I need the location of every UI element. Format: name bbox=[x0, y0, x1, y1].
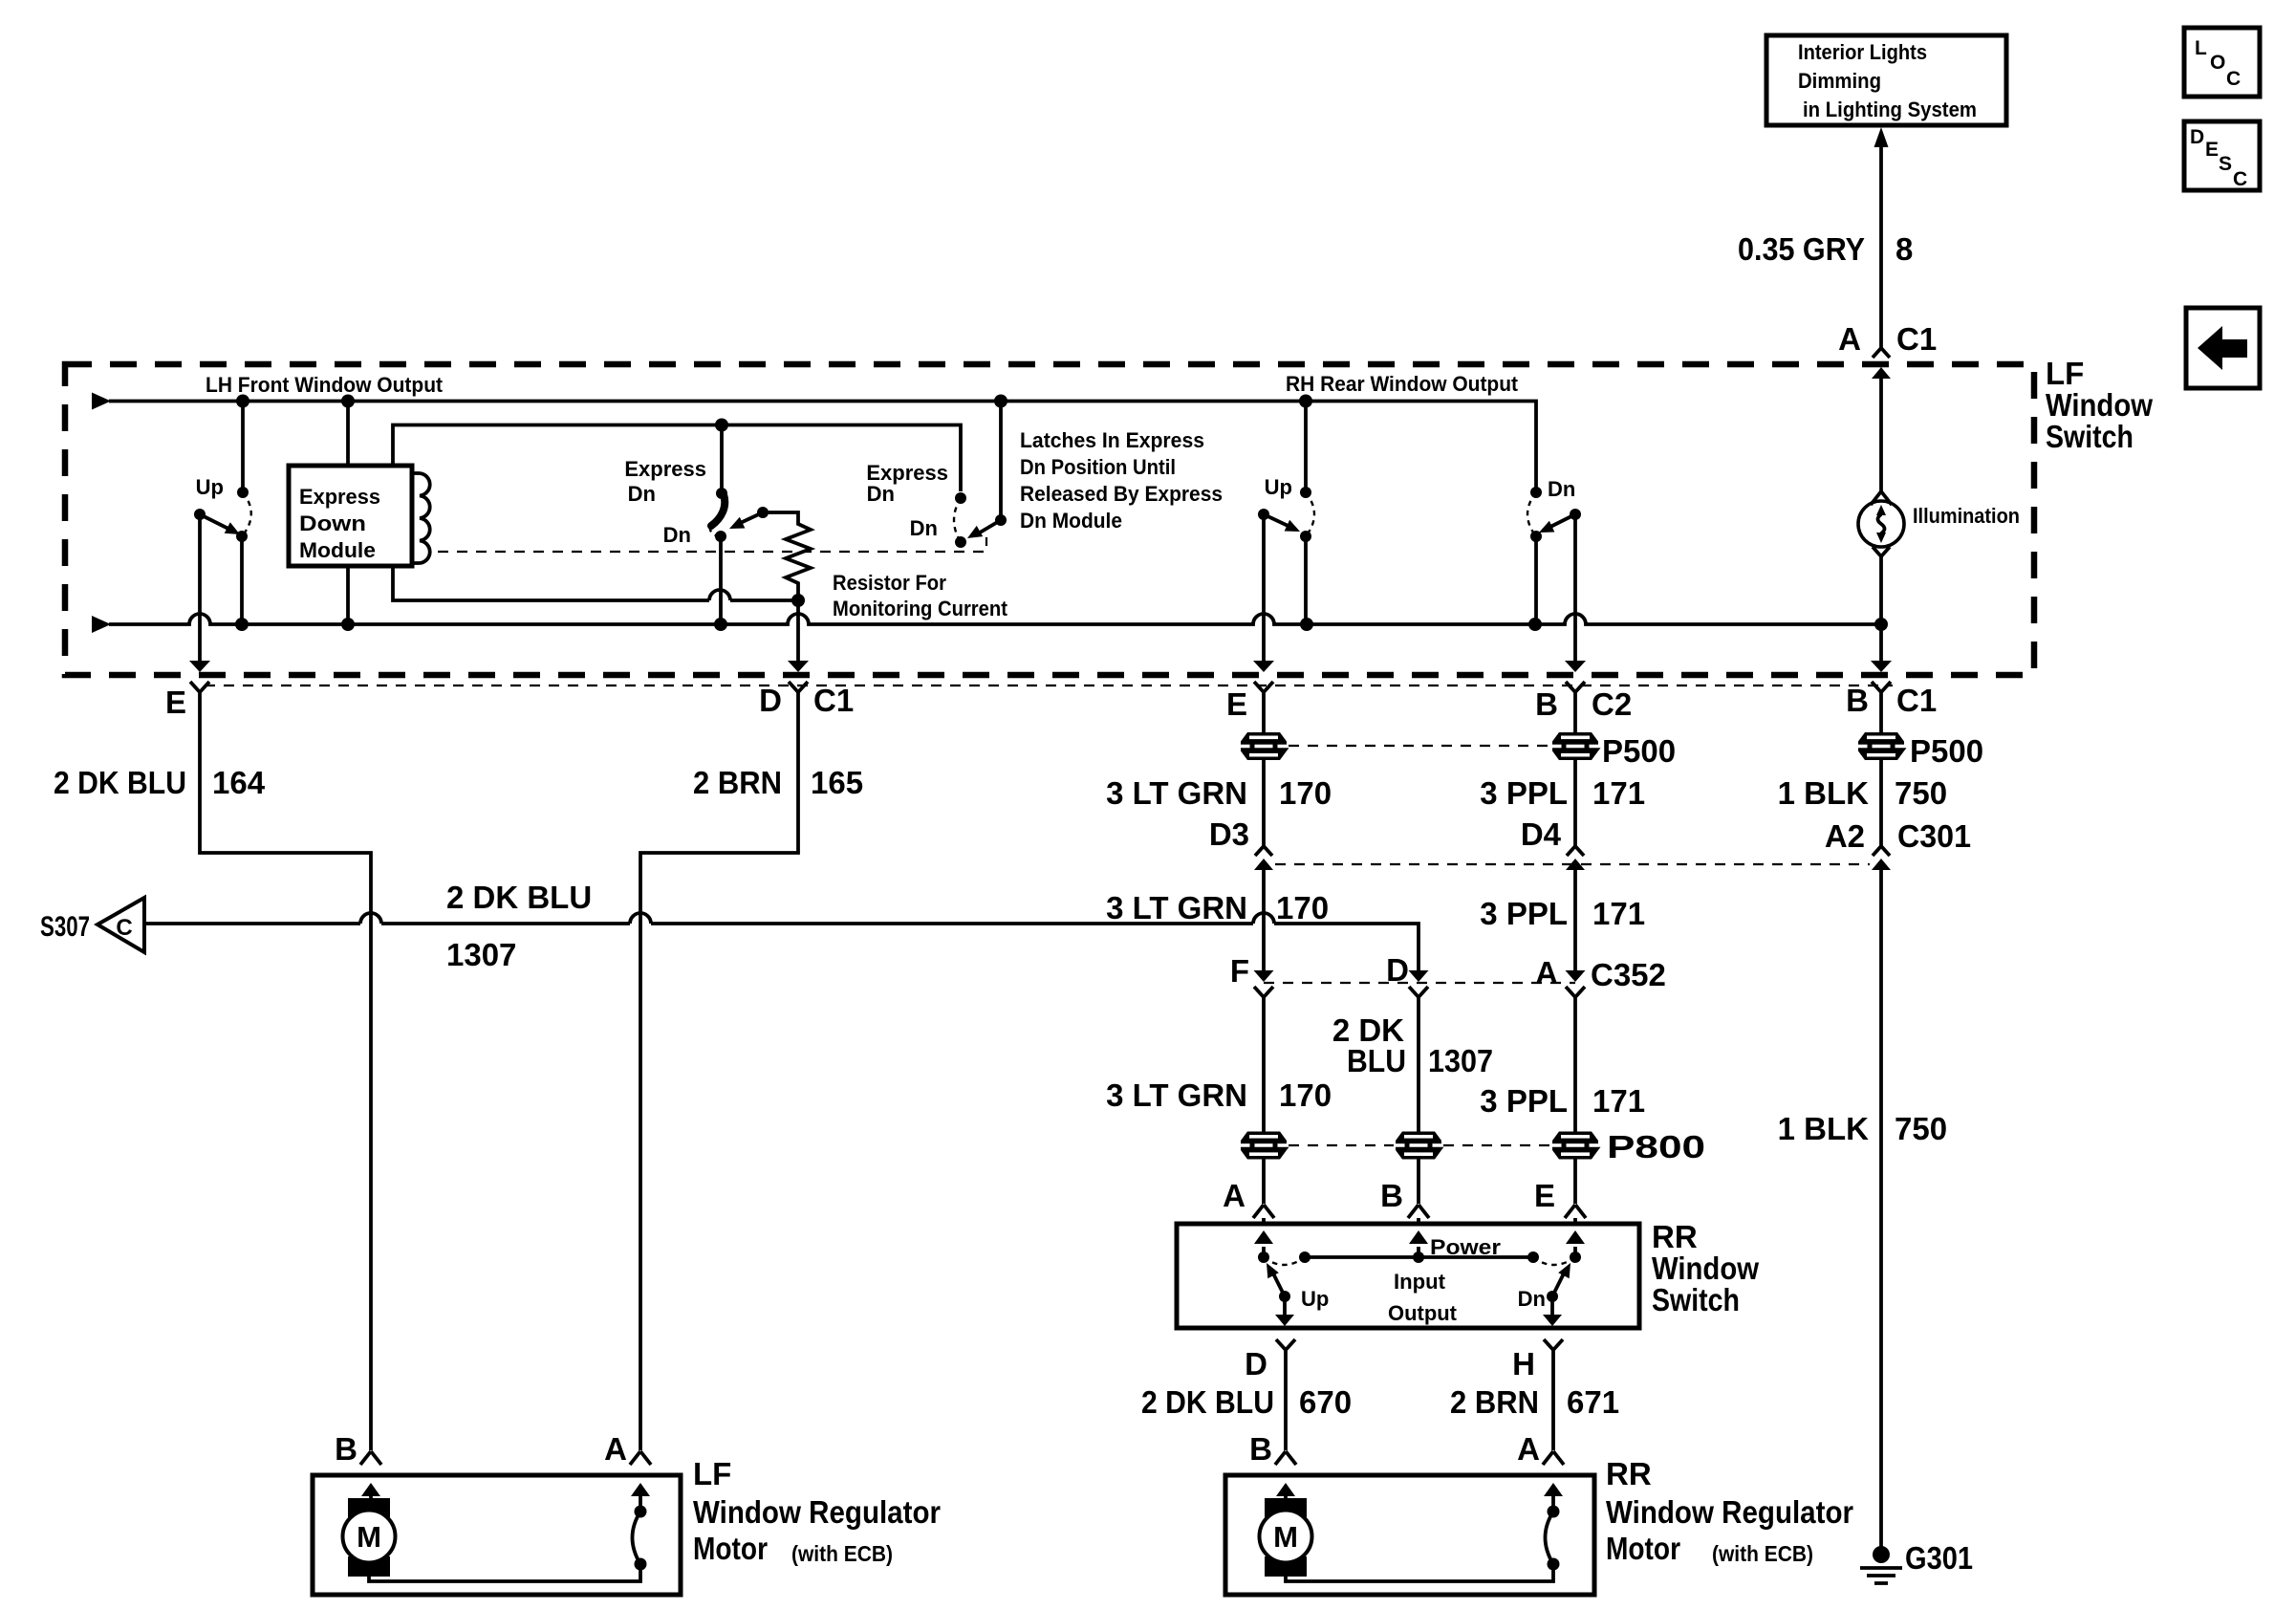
terminal A arrow (RR switch) bbox=[1254, 1230, 1273, 1244]
svg-text:Down: Down bbox=[299, 511, 366, 535]
svg-text:2 DK BLU: 2 DK BLU bbox=[54, 765, 186, 800]
svg-text:171: 171 bbox=[1592, 896, 1645, 931]
DESC button bbox=[2184, 121, 2260, 190]
contact RH Dn moving bbox=[1530, 531, 1542, 542]
coil on module right side bbox=[412, 473, 430, 563]
svg-text:Switch: Switch bbox=[2046, 419, 2134, 454]
wire 2 DK BLU 1307 (S307 to C352 D) bbox=[144, 924, 1419, 970]
svg-text:Dn: Dn bbox=[1518, 1287, 1546, 1311]
svg-text:Up: Up bbox=[196, 475, 224, 499]
switch arm LH Up bbox=[200, 514, 232, 531]
svg-text:G301: G301 bbox=[1905, 1540, 1973, 1576]
wire top bus to latch pivot bbox=[999, 402, 1003, 521]
svg-text:670: 670 bbox=[1299, 1384, 1352, 1420]
svg-text:3 LT GRN: 3 LT GRN bbox=[1106, 890, 1247, 925]
svg-text:O: O bbox=[2210, 52, 2225, 74]
svg-text:3 LT GRN: 3 LT GRN bbox=[1106, 1077, 1247, 1113]
svg-text:Express: Express bbox=[624, 457, 706, 481]
svg-text:A: A bbox=[1838, 321, 1861, 357]
svg-text:Dn: Dn bbox=[663, 523, 691, 547]
svg-text:2 BRN: 2 BRN bbox=[1450, 1384, 1539, 1420]
pivot RR Up bbox=[1258, 1251, 1269, 1263]
grommet P500 (left) bbox=[1262, 760, 1266, 846]
wire LF motor return bbox=[369, 1564, 640, 1581]
svg-text:8: 8 bbox=[1895, 231, 1913, 267]
svg-text:D: D bbox=[1386, 952, 1409, 988]
svg-text:Express: Express bbox=[299, 485, 380, 509]
svg-text:LH Front Window Output: LH Front Window Output bbox=[206, 373, 444, 397]
switch Express Dn (LH, shown latched) bbox=[720, 425, 724, 494]
svg-text:3 PPL: 3 PPL bbox=[1480, 896, 1568, 931]
svg-text:(with ECB): (with ECB) bbox=[1712, 1541, 1813, 1566]
svg-text:B: B bbox=[1846, 683, 1869, 718]
contact Express Dn moving bbox=[715, 531, 726, 542]
svg-text:1 BLK: 1 BLK bbox=[1778, 775, 1870, 811]
connector P800 link right (dashed) bbox=[1443, 1144, 1550, 1146]
svg-text:Up: Up bbox=[1265, 475, 1292, 499]
svg-text:Dimming: Dimming bbox=[1798, 69, 1881, 93]
wire bottom bus bbox=[92, 616, 111, 633]
svg-text:Window Regulator: Window Regulator bbox=[693, 1494, 941, 1530]
node bottom bus / module return bbox=[341, 618, 355, 631]
dashed throw arc RR Dn bbox=[1533, 1257, 1575, 1265]
motor M2 (RR) bbox=[1265, 1498, 1307, 1517]
wire bus to connector B C1 bbox=[1879, 624, 1883, 661]
grommet P500 (right) bbox=[1879, 760, 1883, 846]
wire LH Up pivot to connector E bbox=[198, 514, 202, 661]
svg-text:Motor: Motor bbox=[1606, 1531, 1680, 1566]
pivot LH Up switch bbox=[194, 509, 206, 520]
svg-text:RH Rear Window Output: RH Rear Window Output bbox=[1286, 372, 1519, 396]
node loop bottom / resistor bbox=[791, 594, 805, 607]
wire 3 PPL 171 (B to RR switch E) bbox=[1573, 692, 1577, 732]
svg-text:C: C bbox=[116, 915, 132, 941]
terminal B arrow (LF motor) bbox=[361, 1483, 380, 1496]
svg-text:RR: RR bbox=[1606, 1456, 1652, 1491]
svg-text:165: 165 bbox=[811, 765, 863, 800]
connector P800 link left (dashed) bbox=[1289, 1144, 1394, 1146]
switch RH rear Up bbox=[1304, 402, 1308, 493]
ECB contact (RR motor) bbox=[1548, 1506, 1560, 1518]
wire P800 to RR switch A bbox=[1262, 1159, 1266, 1204]
svg-text:E: E bbox=[1226, 686, 1247, 722]
svg-text:171: 171 bbox=[1592, 775, 1645, 811]
ECB contact (LF motor) bbox=[635, 1506, 647, 1518]
svg-text:C: C bbox=[2226, 68, 2241, 90]
wire RH Dn pivot to connector B C2 bbox=[1573, 514, 1577, 661]
svg-text:0.35 GRY: 0.35 GRY bbox=[1738, 231, 1865, 267]
svg-text:C352: C352 bbox=[1591, 957, 1666, 992]
wire 3 PPL 171 (C352 to P800) bbox=[1573, 997, 1577, 1132]
node power input RR switch bbox=[1413, 1251, 1424, 1263]
connector pass-through P500 link (dashed) bbox=[1289, 745, 1550, 747]
svg-text:1307: 1307 bbox=[1428, 1043, 1493, 1078]
svg-text:B: B bbox=[1535, 686, 1558, 722]
splice S307 bbox=[97, 898, 144, 952]
thick latched arm (Express Dn held) bbox=[711, 494, 725, 526]
node top bus / module feed bbox=[341, 395, 355, 408]
switch arm Express Dn bbox=[734, 512, 763, 526]
LF Window Regulator Motor box bbox=[313, 1475, 681, 1595]
svg-text:E: E bbox=[2205, 139, 2219, 161]
wire RH Up pivot to connector E bbox=[1262, 514, 1266, 661]
ground G301 bbox=[1873, 1546, 1890, 1563]
back arrow button bbox=[2186, 308, 2260, 388]
contact RH Up moving bbox=[1300, 531, 1311, 542]
LOC button bbox=[2184, 28, 2260, 97]
wire 2 BRN 671 (H to RR motor A) bbox=[1551, 1350, 1555, 1450]
mechanical link module to latch (dashed) bbox=[438, 537, 986, 552]
svg-text:C2: C2 bbox=[1592, 686, 1632, 722]
wire 3 LT GRN 170 (C301 to C352 F) bbox=[1262, 870, 1266, 970]
svg-text:750: 750 bbox=[1895, 775, 1947, 811]
RR Window Regulator Motor box bbox=[1225, 1475, 1594, 1595]
dashed throw arc LH Up bbox=[242, 492, 251, 536]
contact Express Dn fixed bbox=[716, 488, 727, 499]
svg-text:3 PPL: 3 PPL bbox=[1480, 1083, 1568, 1119]
svg-text:A: A bbox=[604, 1431, 627, 1467]
dashed throw arc latch bbox=[954, 498, 961, 542]
wire module to bottom bus bbox=[346, 566, 350, 624]
terminal E arrow (RR switch) bbox=[1566, 1230, 1585, 1244]
svg-text:1307: 1307 bbox=[446, 937, 516, 972]
svg-text:P800: P800 bbox=[1607, 1129, 1705, 1164]
wire top bus to module bbox=[346, 402, 350, 467]
svg-text:2 DK BLU: 2 DK BLU bbox=[1141, 1384, 1274, 1420]
svg-text:Illumination: Illumination bbox=[1913, 504, 2020, 528]
svg-text:2 BRN: 2 BRN bbox=[693, 765, 782, 800]
wire RR Up to connector D bbox=[1283, 1296, 1287, 1316]
svg-text:Window Regulator: Window Regulator bbox=[1606, 1494, 1853, 1530]
dashed throw arc RH Dn bbox=[1527, 492, 1536, 536]
svg-text:Dn Position Until: Dn Position Until bbox=[1020, 455, 1176, 479]
pivot latch switch bbox=[995, 514, 1007, 526]
wire 2 DK BLU 164 (E to LF motor B) bbox=[200, 692, 371, 1450]
svg-text:M: M bbox=[1273, 1520, 1298, 1554]
svg-text:Resistor For: Resistor For bbox=[833, 571, 946, 595]
svg-text:S: S bbox=[2219, 153, 2232, 175]
terminal A arrow (LF motor) bbox=[631, 1483, 650, 1496]
pivot RH Up switch bbox=[1258, 509, 1269, 520]
node top bus / latch switch pivot feed bbox=[994, 395, 1007, 408]
svg-text:1 BLK: 1 BLK bbox=[1778, 1111, 1870, 1146]
svg-text:A: A bbox=[1535, 955, 1558, 990]
svg-text:3 PPL: 3 PPL bbox=[1480, 775, 1568, 811]
LF Window Switch assembly dashed box bbox=[65, 364, 2034, 675]
svg-text:C1: C1 bbox=[1896, 683, 1937, 718]
wire A C1 into LF window switch bbox=[1879, 379, 1883, 387]
svg-text:E: E bbox=[1534, 1178, 1555, 1213]
node bottom bus / Express Dn switch return bbox=[714, 618, 727, 631]
svg-text:Power: Power bbox=[1430, 1235, 1501, 1259]
svg-text:L: L bbox=[2195, 37, 2207, 59]
wire RR motor return bbox=[1286, 1564, 1553, 1581]
dashed throw arc RR Up bbox=[1264, 1257, 1305, 1265]
svg-text:B: B bbox=[335, 1431, 357, 1467]
svg-text:Latches In Express: Latches In Express bbox=[1020, 428, 1204, 452]
node top bus / RH Up contact feed bbox=[1299, 395, 1312, 408]
svg-text:in Lighting System: in Lighting System bbox=[1803, 98, 1977, 121]
node loop top / Express Dn contact feed bbox=[715, 419, 728, 432]
svg-text:D3: D3 bbox=[1209, 816, 1249, 852]
wire 1 BLK 750 (B to G301) bbox=[1879, 692, 1883, 732]
svg-text:Released By Express: Released By Express bbox=[1020, 482, 1223, 506]
node bottom bus / LH Up moving contact bbox=[235, 618, 249, 631]
svg-text:B: B bbox=[1249, 1431, 1272, 1467]
node bottom bus / RH Dn moving contact bbox=[1528, 618, 1542, 631]
svg-text:C301: C301 bbox=[1897, 818, 1971, 854]
svg-text:A: A bbox=[1517, 1431, 1540, 1467]
svg-text:D4: D4 bbox=[1521, 816, 1562, 852]
switch LH window Up (fixed contact) bbox=[241, 402, 245, 493]
svg-text:671: 671 bbox=[1567, 1384, 1619, 1420]
wire lamp to bottom bus bbox=[1879, 556, 1883, 624]
wire LH Front Window Output top bus bbox=[92, 393, 111, 410]
svg-text:B: B bbox=[1380, 1178, 1403, 1213]
svg-text:Dn Module: Dn Module bbox=[1020, 509, 1122, 533]
svg-text:A: A bbox=[1223, 1178, 1245, 1213]
wire 3 LT GRN 170 (E to RR switch A) bbox=[1262, 692, 1266, 732]
pivot RH Dn switch bbox=[1570, 509, 1581, 520]
dashed throw arc Express Dn bbox=[710, 527, 718, 536]
switch arm RR Dn bbox=[1552, 1272, 1565, 1296]
svg-text:D: D bbox=[1245, 1346, 1267, 1382]
svg-text:3 LT GRN: 3 LT GRN bbox=[1106, 775, 1247, 811]
svg-text:P500: P500 bbox=[1910, 733, 1983, 769]
connector C301 (dashed row) bbox=[1275, 863, 1870, 865]
node bottom bus / RH Up moving contact bbox=[1300, 618, 1313, 631]
wire to illumination lamp bbox=[1879, 387, 1883, 491]
svg-text:D: D bbox=[2190, 126, 2204, 148]
svg-text:Module: Module bbox=[299, 538, 376, 562]
svg-text:C1: C1 bbox=[1896, 321, 1937, 357]
svg-text:Input: Input bbox=[1394, 1270, 1446, 1294]
svg-text:P500: P500 bbox=[1602, 733, 1676, 769]
svg-text:F: F bbox=[1230, 953, 1249, 989]
svg-text:Interior Lights: Interior Lights bbox=[1798, 40, 1927, 64]
switch RR Dn contact bbox=[1547, 1291, 1558, 1302]
resistor R (monitoring current) bbox=[763, 512, 811, 600]
motor M1 (LF) bbox=[348, 1498, 390, 1517]
Interior Lights Dimming box bbox=[1766, 35, 2006, 125]
lamp filament bbox=[1878, 514, 1885, 533]
terminal B arrow (RR motor) bbox=[1276, 1483, 1295, 1496]
svg-text:Switch: Switch bbox=[1652, 1282, 1740, 1317]
pivot Express Dn switch bbox=[757, 507, 769, 518]
svg-text:Output: Output bbox=[1388, 1301, 1458, 1325]
svg-text:Window: Window bbox=[2046, 387, 2153, 423]
wire 1 BLK 750 (C301 to G301) bbox=[1879, 870, 1883, 1549]
svg-text:A2: A2 bbox=[1825, 818, 1865, 854]
wire power bar RR switch bbox=[1305, 1255, 1533, 1259]
svg-text:Dn: Dn bbox=[1548, 477, 1575, 501]
contact latch moving bbox=[955, 536, 966, 548]
switch arm RH Up bbox=[1264, 514, 1296, 530]
switch arm RH Dn bbox=[1543, 514, 1575, 531]
svg-text:LF: LF bbox=[2046, 356, 2084, 391]
wire module output loop top bbox=[393, 425, 961, 492]
pivot RR Dn bbox=[1570, 1251, 1581, 1263]
terminal B arrow (RR switch) bbox=[1409, 1230, 1428, 1244]
switch arm RR Up bbox=[1272, 1272, 1285, 1296]
node bottom bus / illumination return bbox=[1874, 618, 1888, 631]
terminal A arrow (RR motor) bbox=[1544, 1483, 1563, 1496]
svg-text:Dn: Dn bbox=[910, 516, 938, 540]
node top bus / LH Up contact feed bbox=[236, 395, 249, 408]
svg-text:164: 164 bbox=[212, 765, 266, 800]
wire RH Up moving contact to bus bbox=[1304, 536, 1308, 624]
svg-text:C: C bbox=[2233, 168, 2247, 190]
wire 0.35 GRY 8 (to Interior Lights) bbox=[1879, 134, 1883, 348]
svg-text:Dn: Dn bbox=[867, 482, 895, 506]
grommet P500 (middle) bbox=[1573, 760, 1577, 846]
contact RH Up fixed bbox=[1300, 487, 1311, 498]
svg-text:D: D bbox=[759, 683, 782, 718]
connector face C1/C2 (dashed) bbox=[205, 685, 1893, 686]
dashed throw arc RH Up bbox=[1306, 492, 1314, 536]
svg-text:BLU: BLU bbox=[1347, 1043, 1406, 1078]
svg-text:S307: S307 bbox=[40, 911, 90, 943]
svg-text:H: H bbox=[1512, 1346, 1535, 1382]
svg-text:Up: Up bbox=[1301, 1287, 1329, 1311]
wire P800 to RR switch B bbox=[1417, 1159, 1420, 1204]
connector C352 (dashed row) bbox=[1264, 982, 1575, 984]
svg-text:750: 750 bbox=[1895, 1111, 1947, 1146]
grommet P800 (middle) bbox=[1396, 1132, 1444, 1160]
wire 2 DK BLU 1307 (C352 to P800) bbox=[1417, 997, 1420, 1132]
wire Express Dn moving contact to bus bbox=[719, 536, 723, 624]
svg-text:Window: Window bbox=[1652, 1251, 1759, 1286]
grommet P800 (left) bbox=[1241, 1132, 1289, 1160]
svg-text:(with ECB): (with ECB) bbox=[791, 1541, 893, 1566]
wire resistor to connector D bbox=[796, 600, 800, 661]
svg-text:170: 170 bbox=[1279, 1077, 1332, 1113]
switch arm latch bbox=[975, 520, 1001, 535]
contact LH Up moving bbox=[236, 531, 248, 542]
svg-text:Monitoring Current: Monitoring Current bbox=[833, 597, 1008, 620]
wire 2 BRN 165 (D to LF motor A) bbox=[640, 692, 798, 1450]
wire RH Dn moving contact to bus bbox=[1534, 536, 1538, 624]
svg-text:C1: C1 bbox=[813, 683, 854, 718]
svg-text:171: 171 bbox=[1592, 1083, 1645, 1119]
wire module output loop bottom bbox=[393, 566, 798, 600]
wire LH Up moving contact to bus bbox=[240, 536, 244, 624]
wire RR Dn to connector H bbox=[1550, 1296, 1554, 1316]
contact RH Dn fixed bbox=[1530, 487, 1542, 498]
RR Window Switch box bbox=[1177, 1224, 1639, 1328]
grommet P800 (right) bbox=[1552, 1132, 1601, 1160]
svg-text:170: 170 bbox=[1279, 775, 1332, 811]
wire 2 DK BLU 670 (D to RR motor B) bbox=[1284, 1350, 1288, 1450]
svg-text:Dn: Dn bbox=[628, 482, 656, 506]
svg-text:E: E bbox=[165, 685, 186, 720]
svg-text:LF: LF bbox=[693, 1456, 731, 1491]
switch RR Up contact bbox=[1279, 1291, 1290, 1302]
svg-text:Motor: Motor bbox=[693, 1531, 768, 1566]
svg-text:2 DK BLU: 2 DK BLU bbox=[446, 880, 592, 915]
svg-text:RR: RR bbox=[1652, 1219, 1698, 1254]
wire P800 to RR switch E bbox=[1573, 1159, 1577, 1204]
svg-text:170: 170 bbox=[1276, 890, 1329, 925]
wire 3 PPL 171 (C301 to C352 A) bbox=[1573, 870, 1577, 970]
svg-text:M: M bbox=[357, 1520, 381, 1554]
wire 3 LT GRN 170 (C352 to P800) bbox=[1262, 997, 1266, 1132]
contact latch fixed (Express Dn position) bbox=[955, 492, 966, 504]
